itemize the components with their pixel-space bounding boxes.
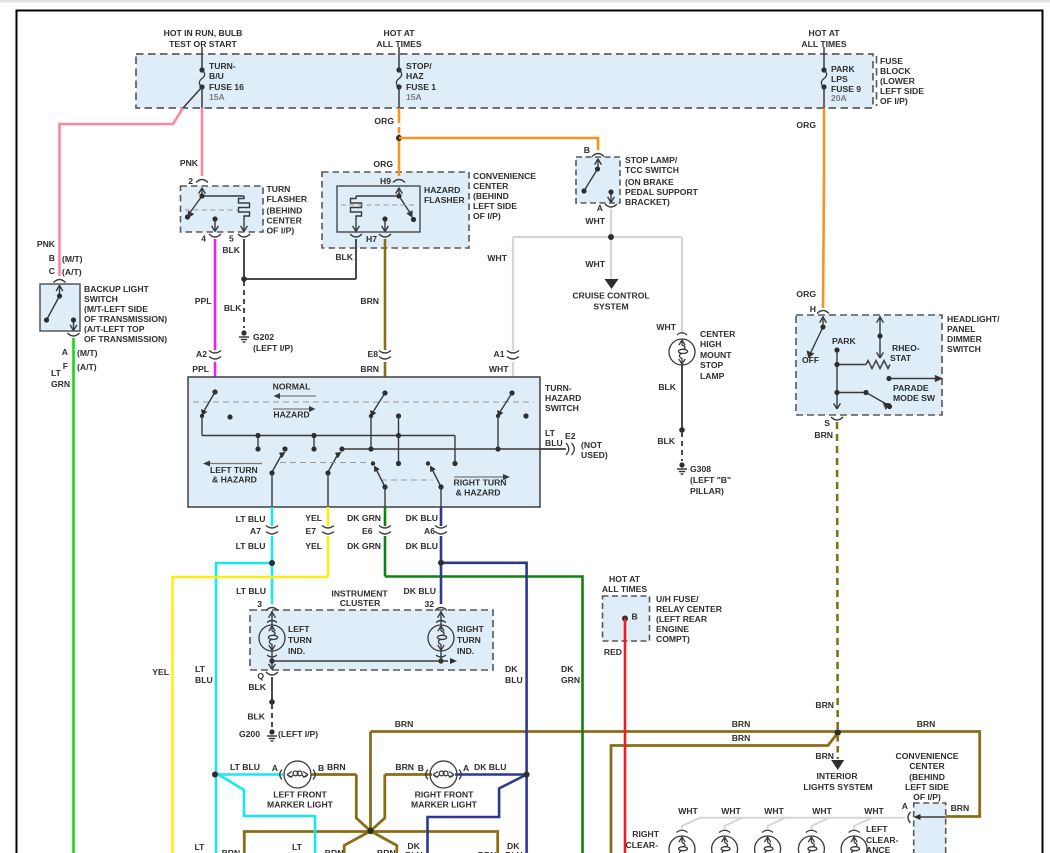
- svg-text:G200: G200: [239, 729, 260, 739]
- wire BRN main bus: [244, 732, 979, 853]
- svg-text:HIGH: HIGH: [700, 339, 721, 349]
- svg-text:TURN: TURN: [457, 635, 481, 645]
- svg-text:2: 2: [188, 176, 193, 186]
- svg-text:SWITCH: SWITCH: [947, 344, 981, 354]
- node LT BLU marker junction: [212, 772, 218, 778]
- svg-text:& HAZARD: & HAZARD: [456, 488, 501, 498]
- svg-text:B: B: [584, 145, 590, 155]
- wire BRN dashed to interior lights: [836, 735, 839, 759]
- connector S: [831, 417, 843, 420]
- svg-text:STOP/: STOP/: [406, 61, 432, 71]
- svg-text:PNK: PNK: [180, 158, 199, 168]
- wire WHT clearance bus: [682, 818, 905, 829]
- svg-text:PNK: PNK: [37, 239, 56, 249]
- connector hazard pin BLK: [350, 234, 362, 237]
- svg-text:OF I/P): OF I/P): [473, 211, 501, 221]
- ground G308: [677, 462, 687, 474]
- svg-text:OFF: OFF: [802, 355, 819, 365]
- svg-text:(LEFT "B": (LEFT "B": [690, 475, 731, 485]
- turn flasher box: [181, 186, 264, 232]
- connector A6: [406, 513, 447, 551]
- svg-text:OF I/P): OF I/P): [880, 96, 908, 106]
- svg-text:B: B: [318, 763, 324, 773]
- svg-text:CENTER: CENTER: [909, 761, 945, 771]
- switch S5 (WHT input): [496, 390, 529, 449]
- wire BRN hazard to E8: [384, 239, 387, 350]
- lamp RIGHT FRONT MARKER LIGHT: [395, 761, 506, 810]
- svg-text:MODE SW: MODE SW: [893, 393, 936, 403]
- lamp CENTER HIGH MOUNT STOP LAMP: [669, 339, 695, 365]
- svg-text:ANCE: ANCE: [866, 845, 891, 853]
- svg-text:OF I/P): OF I/P): [267, 226, 295, 236]
- lamp LEFT TURN IND: [259, 611, 312, 670]
- svg-text:ORG: ORG: [796, 289, 816, 299]
- svg-text:PARADE: PARADE: [893, 383, 929, 393]
- node WHT junction: [608, 234, 614, 240]
- fuse TURN-B/U FUSE 16: [199, 47, 244, 108]
- svg-text:HOT IN RUN, BULB: HOT IN RUN, BULB: [164, 28, 243, 38]
- connector 32: [435, 608, 447, 611]
- svg-text:YEL: YEL: [305, 513, 322, 523]
- label HAZARD FLASHER: [424, 185, 465, 205]
- stop lamp / TCC switch box: [576, 157, 620, 203]
- svg-text:COMPT): COMPT): [656, 634, 690, 644]
- connector A: [605, 204, 617, 207]
- svg-text:B: B: [49, 253, 55, 263]
- connector A7: [236, 514, 278, 551]
- svg-text:LEFT: LEFT: [288, 624, 310, 634]
- wire into conv center with arrow: [916, 816, 946, 818]
- svg-text:ORG: ORG: [373, 159, 393, 169]
- svg-text:F: F: [63, 361, 68, 371]
- fuse block box: [136, 54, 873, 108]
- connector E7: [305, 513, 334, 551]
- svg-text:TURN-: TURN-: [545, 383, 572, 393]
- svg-text:LT BLU: LT BLU: [236, 541, 266, 551]
- label DK BLU long wire: [505, 664, 523, 685]
- svg-text:CLEAR-: CLEAR-: [626, 840, 659, 850]
- hazard flasher internals: [351, 188, 413, 232]
- wire BLK from pin 5: [244, 239, 356, 328]
- wire BLK from Q: [271, 677, 273, 702]
- label LEFT TURN & HAZARD with arrow: [203, 461, 262, 485]
- svg-text:A: A: [597, 203, 603, 213]
- svg-text:B: B: [418, 763, 424, 773]
- svg-text:BLU: BLU: [505, 675, 523, 685]
- label INSTRUMENT CLUSTER: [331, 589, 388, 609]
- connector hazard pin H7: [379, 234, 391, 237]
- svg-text:PARK: PARK: [832, 336, 857, 346]
- label BACKUP LIGHT SWITCH: [84, 284, 167, 344]
- svg-text:OF I/P): OF I/P): [913, 792, 941, 802]
- svg-text:S: S: [824, 418, 830, 428]
- svg-text:(LOWER: (LOWER: [880, 76, 916, 86]
- svg-text:BRN: BRN: [360, 296, 379, 306]
- svg-text:PILLAR): PILLAR): [690, 486, 724, 496]
- label NORMAL with arrow: [273, 382, 316, 400]
- svg-text:(NOT: (NOT: [581, 440, 603, 450]
- stop switch internals: [584, 159, 614, 203]
- switch S2 (LT BLU out): [269, 446, 287, 507]
- svg-text:BRN: BRN: [951, 803, 970, 813]
- label HOT IN RUN: [164, 28, 243, 49]
- svg-text:ALL TIMES: ALL TIMES: [602, 584, 647, 594]
- connector pin 2: [196, 180, 208, 183]
- svg-text:(A/T): (A/T): [62, 267, 82, 277]
- svg-text:SYSTEM: SYSTEM: [593, 302, 628, 312]
- svg-text:BLK: BLK: [657, 436, 675, 446]
- svg-text:RED: RED: [604, 647, 622, 657]
- svg-text:PARK: PARK: [831, 64, 856, 74]
- label HAZARD with arrow: [273, 406, 316, 420]
- svg-text:(LEFT I/P): (LEFT I/P): [278, 729, 318, 739]
- connector backup top: [54, 280, 66, 283]
- svg-text:PANEL: PANEL: [947, 324, 976, 334]
- U/H fuse/relay center box: [603, 596, 650, 641]
- svg-text:TURN-: TURN-: [209, 61, 236, 71]
- svg-text:3: 3: [257, 599, 262, 609]
- svg-text:TURN: TURN: [267, 184, 291, 194]
- svg-text:5: 5: [229, 234, 234, 244]
- svg-text:LT BLU: LT BLU: [236, 586, 266, 596]
- svg-text:& HAZARD: & HAZARD: [212, 475, 257, 485]
- label HOT AT ALL TIMES (fuse 1): [376, 28, 421, 49]
- turn-hazard switch box: [188, 377, 540, 507]
- fuse PARK LPS FUSE 9: [821, 47, 861, 108]
- label DK GRN long wire: [561, 664, 580, 685]
- svg-text:BRN: BRN: [815, 751, 834, 761]
- svg-text:ENGINE: ENGINE: [656, 624, 689, 634]
- switch S6 (DK GRN out): [371, 461, 388, 507]
- fuse STOP/HAZ FUSE 1: [396, 47, 436, 108]
- svg-text:OF TRANSMISSION): OF TRANSMISSION): [84, 334, 167, 344]
- connector E8: [379, 351, 391, 360]
- svg-text:STOP: STOP: [700, 360, 724, 370]
- svg-text:WHT: WHT: [585, 216, 605, 226]
- svg-text:CLUSTER: CLUSTER: [340, 598, 381, 608]
- svg-text:LAMP: LAMP: [700, 371, 725, 381]
- instrument cluster box: [250, 610, 493, 670]
- svg-text:15A: 15A: [209, 92, 225, 102]
- svg-text:MOUNT: MOUNT: [700, 350, 732, 360]
- svg-text:A: A: [463, 763, 469, 773]
- lamp LEFT FRONT MARKER LIGHT: [230, 761, 346, 810]
- svg-text:PPL: PPL: [195, 296, 212, 306]
- connector Q: [266, 672, 278, 675]
- svg-text:DK GRN: DK GRN: [347, 541, 381, 551]
- svg-text:IND.: IND.: [457, 646, 474, 656]
- svg-text:NORMAL: NORMAL: [273, 382, 311, 392]
- svg-text:B/U: B/U: [209, 71, 224, 81]
- svg-text:BLK: BLK: [224, 303, 242, 313]
- label FUSE BLOCK: [880, 56, 924, 106]
- hazard flasher dashed center line: [341, 204, 416, 206]
- wire BLK chmsl: [681, 365, 683, 430]
- hazard flasher inner box: [337, 186, 420, 232]
- svg-text:TURN: TURN: [288, 635, 312, 645]
- hazard flasher outer box: [322, 172, 469, 248]
- svg-text:BRN: BRN: [360, 364, 379, 374]
- svg-text:MARKER LIGHT: MARKER LIGHT: [267, 800, 334, 810]
- svg-text:TEST OR START: TEST OR START: [169, 39, 237, 49]
- wire cluster internal with arrow: [272, 660, 448, 662]
- arrow to cruise control: [605, 279, 619, 289]
- svg-text:DIMMER: DIMMER: [947, 334, 983, 344]
- dashed track right: [381, 479, 433, 481]
- svg-text:BRN: BRN: [732, 719, 751, 729]
- svg-text:BRN: BRN: [395, 719, 414, 729]
- svg-text:PPL: PPL: [192, 364, 209, 374]
- svg-text:(A/T): (A/T): [77, 362, 97, 372]
- svg-text:FUSE 1: FUSE 1: [406, 82, 436, 92]
- node B inside U/H box: [622, 616, 628, 622]
- svg-text:HOT AT: HOT AT: [383, 28, 415, 38]
- svg-text:DK BLU: DK BLU: [406, 513, 438, 523]
- svg-text:BRN: BRN: [917, 719, 936, 729]
- wire ORG junction to stop switch: [399, 138, 598, 150]
- svg-text:B: B: [632, 612, 638, 622]
- svg-text:BLK: BLK: [247, 712, 265, 722]
- svg-text:LEFT FRONT: LEFT FRONT: [273, 790, 327, 800]
- label HEADLIGHT/PANEL DIMMER SWITCH: [947, 314, 1000, 354]
- svg-text:WHT: WHT: [489, 364, 509, 374]
- connector H: [817, 311, 829, 314]
- svg-text:INSTRUMENT: INSTRUMENT: [331, 589, 388, 599]
- svg-text:BRN: BRN: [814, 430, 833, 440]
- svg-text:MARKER LIGHT: MARKER LIGHT: [411, 800, 478, 810]
- switch S1 (PPL input): [200, 389, 233, 435]
- svg-text:4: 4: [201, 234, 206, 244]
- svg-text:RELAY CENTER: RELAY CENTER: [656, 604, 723, 614]
- svg-text:20A: 20A: [831, 93, 847, 103]
- dashed track middle: [280, 462, 368, 464]
- svg-text:HAZARD: HAZARD: [545, 393, 581, 403]
- convenience center box (bottom): [914, 803, 946, 853]
- connector E6: [347, 513, 391, 551]
- svg-text:RHEO-: RHEO-: [892, 343, 920, 353]
- svg-text:A: A: [272, 763, 278, 773]
- svg-text:BACKUP LIGHT: BACKUP LIGHT: [84, 284, 150, 294]
- svg-text:FLASHER: FLASHER: [267, 194, 308, 204]
- bottom cut labels: [192, 841, 523, 853]
- svg-text:LT: LT: [51, 368, 62, 378]
- dimmer switch internals: [808, 316, 942, 409]
- svg-text:C: C: [49, 266, 55, 276]
- svg-text:BRN: BRN: [377, 848, 396, 853]
- svg-text:BRN: BRN: [327, 762, 346, 772]
- svg-text:LEFT SIDE: LEFT SIDE: [473, 201, 517, 211]
- svg-text:E2: E2: [565, 431, 576, 441]
- label HOT AT ALL TIMES (fuse 9): [801, 28, 846, 49]
- svg-text:BLU: BLU: [195, 675, 213, 685]
- connector pin 5: [238, 234, 250, 237]
- node DK BLU marker junction: [524, 772, 530, 778]
- svg-text:INTERIOR: INTERIOR: [816, 771, 858, 781]
- node ORG junction: [396, 135, 402, 141]
- svg-text:(A/T-LEFT TOP: (A/T-LEFT TOP: [84, 324, 145, 334]
- label RIGHT CLEAR-: [626, 829, 660, 850]
- svg-text:(M/T): (M/T): [62, 254, 83, 264]
- svg-text:GRN: GRN: [51, 379, 70, 389]
- label (NOT USED): [581, 440, 608, 460]
- wire PPL: [214, 239, 217, 350]
- lower bus to E2: [342, 448, 565, 450]
- svg-text:LT: LT: [195, 664, 206, 674]
- svg-text:RIGHT FRONT: RIGHT FRONT: [415, 790, 474, 800]
- svg-text:WHT: WHT: [656, 322, 676, 332]
- label U/H FUSE/RELAY CENTER: [656, 594, 723, 644]
- connector pin 4: [209, 234, 221, 237]
- svg-text:DK: DK: [505, 664, 518, 674]
- svg-text:DK BLU: DK BLU: [404, 586, 436, 596]
- svg-text:(LEFT REAR: (LEFT REAR: [656, 614, 708, 624]
- svg-text:LPS: LPS: [831, 74, 848, 84]
- svg-text:IND.: IND.: [288, 646, 305, 656]
- lamp RIGHT TURN IND: [428, 611, 484, 664]
- node BRN junction: [835, 729, 841, 735]
- wire PNK to turn flasher: [201, 108, 204, 176]
- connector backup bottom: [68, 333, 80, 336]
- svg-text:FUSE: FUSE: [880, 56, 903, 66]
- svg-text:WHT: WHT: [585, 259, 605, 269]
- ground G202 (left): [239, 330, 249, 342]
- svg-text:HOT AT: HOT AT: [808, 28, 840, 38]
- svg-text:BRN: BRN: [732, 733, 751, 743]
- label INTERIOR LIGHTS SYSTEM: [803, 771, 872, 792]
- svg-text:SWITCH: SWITCH: [545, 403, 579, 413]
- svg-text:U/H FUSE/: U/H FUSE/: [656, 594, 699, 604]
- svg-text:BRN: BRN: [222, 848, 241, 853]
- svg-text:LT BLU: LT BLU: [230, 762, 260, 772]
- svg-text:G202: G202: [253, 332, 274, 342]
- svg-text:BLK: BLK: [658, 382, 676, 392]
- switch S7 (DK BLU out): [426, 461, 444, 507]
- wire WHT net: [513, 209, 682, 377]
- svg-text:LEFT: LEFT: [866, 824, 888, 834]
- svg-text:BRACKET): BRACKET): [625, 197, 670, 207]
- svg-text:WHT: WHT: [721, 806, 741, 816]
- label CONVENIENCE CENTER: [473, 171, 536, 221]
- wire LT BLU net: [215, 507, 315, 853]
- svg-text:E8: E8: [367, 349, 378, 359]
- svg-text:DK: DK: [561, 664, 574, 674]
- wire DK GRN net: [385, 507, 583, 853]
- svg-text:LT BLU: LT BLU: [236, 514, 266, 524]
- connector B: [592, 154, 604, 157]
- label LEFT CLEAR-ANCE: [866, 824, 899, 853]
- svg-text:WHT: WHT: [864, 806, 884, 816]
- ground G200: [267, 729, 277, 741]
- label LT BLU long wire: [195, 664, 213, 685]
- svg-text:32: 32: [424, 599, 434, 609]
- wire LT GRN: [72, 338, 75, 853]
- svg-text:YEL: YEL: [152, 667, 169, 677]
- svg-text:A6: A6: [424, 526, 435, 536]
- wire RED: [624, 619, 627, 853]
- svg-text:E7: E7: [305, 526, 316, 536]
- svg-text:HAZ: HAZ: [406, 71, 424, 81]
- svg-text:BLU: BLU: [545, 438, 563, 448]
- label CRUISE CONTROL SYSTEM: [572, 291, 649, 312]
- svg-text:STOP LAMP/: STOP LAMP/: [625, 155, 678, 165]
- svg-text:LIGHTS SYSTEM: LIGHTS SYSTEM: [803, 782, 872, 792]
- svg-text:YEL: YEL: [305, 541, 322, 551]
- svg-text:BLOCK: BLOCK: [880, 66, 911, 76]
- node marker junction: [367, 828, 373, 834]
- svg-text:(M/T-LEFT SIDE: (M/T-LEFT SIDE: [84, 304, 148, 314]
- svg-text:CONVENIENCE: CONVENIENCE: [473, 171, 536, 181]
- svg-text:A2: A2: [196, 349, 207, 359]
- svg-text:BRN: BRN: [395, 762, 414, 772]
- wire BRN dashed from dimmer: [836, 422, 839, 731]
- svg-text:G308: G308: [690, 464, 711, 474]
- connector H9: [393, 180, 405, 183]
- svg-text:HAZARD: HAZARD: [273, 410, 309, 420]
- svg-text:LEFT TURN: LEFT TURN: [210, 465, 258, 475]
- svg-text:ORG: ORG: [796, 120, 816, 130]
- wire BLK hazard flasher: [355, 239, 357, 279]
- svg-text:USED): USED): [581, 450, 608, 460]
- svg-text:PEDAL SUPPORT: PEDAL SUPPORT: [625, 187, 699, 197]
- svg-text:WHT: WHT: [812, 806, 832, 816]
- svg-text:RIGHT: RIGHT: [632, 829, 659, 839]
- backup light switch box: [40, 284, 80, 331]
- svg-text:RIGHT: RIGHT: [457, 624, 484, 634]
- fuse block right label separator: [876, 56, 878, 106]
- label STOP LAMP/TCC SWITCH: [625, 155, 699, 207]
- svg-text:A7: A7: [250, 526, 261, 536]
- svg-text:FUSE 16: FUSE 16: [209, 82, 244, 92]
- top gray strip: [0, 0, 1050, 3]
- label TURN-HAZARD SWITCH: [545, 383, 581, 413]
- svg-text:A1: A1: [494, 349, 505, 359]
- turn flasher internals: [188, 188, 250, 232]
- svg-text:CLEAR-: CLEAR-: [866, 835, 899, 845]
- svg-text:BLK: BLK: [248, 682, 266, 692]
- wire YEL net: [173, 507, 329, 853]
- svg-text:SWITCH: SWITCH: [84, 294, 118, 304]
- wire ORG fuse9 to dimmer: [823, 108, 826, 176]
- svg-text:ORG: ORG: [374, 116, 394, 126]
- svg-text:H9: H9: [380, 176, 391, 186]
- svg-text:OF TRANSMISSION): OF TRANSMISSION): [84, 314, 167, 324]
- svg-text:(BEHIND: (BEHIND: [473, 191, 509, 201]
- label LT BLU E2: [545, 428, 576, 448]
- backup switch internals: [47, 285, 77, 331]
- label HOT AT ALL TIMES (U/H): [602, 574, 647, 594]
- connector 3: [266, 608, 278, 611]
- svg-text:(ON BRAKE: (ON BRAKE: [625, 177, 674, 187]
- svg-text:BLK: BLK: [335, 252, 353, 262]
- svg-text:CENTER: CENTER: [700, 329, 736, 339]
- svg-text:TCC SWITCH: TCC SWITCH: [625, 165, 679, 175]
- turn flasher dashed center line: [185, 209, 238, 211]
- svg-text:LEFT SIDE: LEFT SIDE: [880, 86, 924, 96]
- connector A2: [209, 351, 221, 360]
- wire PNK fuse16 branch diagonal: [183, 87, 202, 108]
- wire DK BLU net: [441, 507, 527, 853]
- connector E2 half: [566, 443, 574, 455]
- wire DK BLU marker branch: [428, 775, 527, 853]
- wire ORG fuse1 to junction: [398, 108, 401, 117]
- svg-text:(BEHIND: (BEHIND: [909, 772, 945, 782]
- svg-text:WHT: WHT: [678, 806, 698, 816]
- upper bus: [202, 436, 455, 464]
- switch S4 (BRN input): [369, 390, 401, 463]
- dashed track line upper: [193, 401, 534, 403]
- svg-text:CENTER: CENTER: [267, 216, 303, 226]
- svg-text:(LEFT I/P): (LEFT I/P): [253, 343, 293, 353]
